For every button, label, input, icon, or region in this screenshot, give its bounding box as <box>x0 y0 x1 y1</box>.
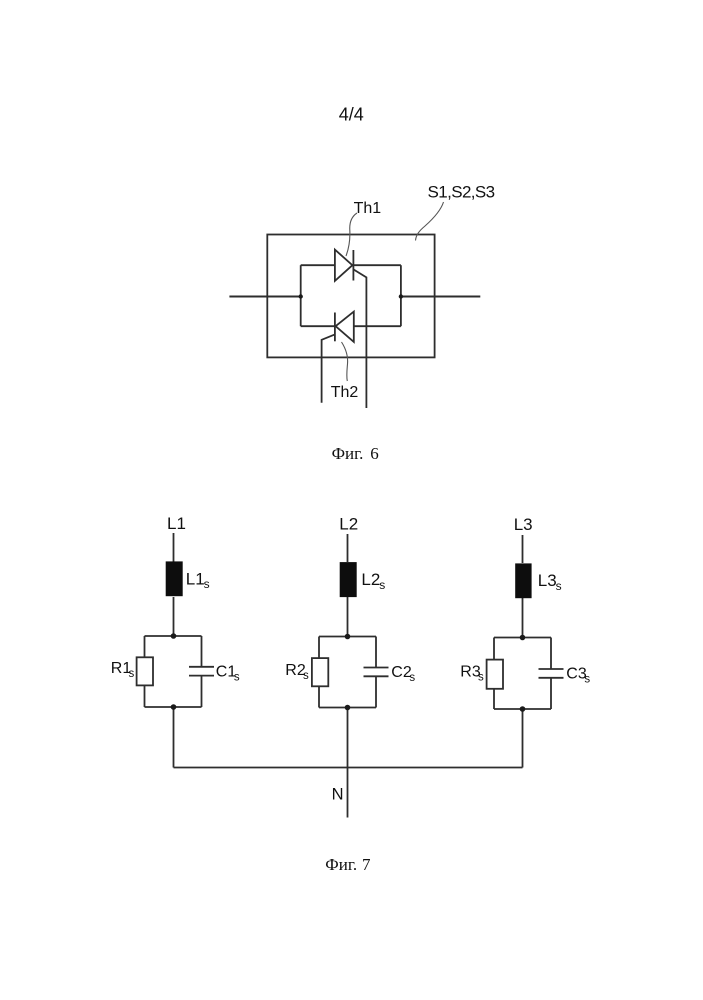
svg-text:L3: L3 <box>538 571 557 590</box>
svg-text:Фиг.7: Фиг.7 <box>325 855 371 874</box>
svg-text:4/4: 4/4 <box>339 104 364 124</box>
svg-text:L2: L2 <box>361 570 380 589</box>
svg-text:Th2: Th2 <box>331 384 359 401</box>
svg-text:L1: L1 <box>167 514 186 533</box>
svg-text:S1,S2,S3: S1,S2,S3 <box>428 183 495 202</box>
svg-text:Th1: Th1 <box>354 200 382 217</box>
svg-text:s: s <box>409 672 415 684</box>
svg-text:Фиг.6: Фиг.6 <box>332 444 379 463</box>
svg-text:s: s <box>303 670 309 682</box>
svg-text:N: N <box>332 786 344 804</box>
svg-text:s: s <box>129 668 135 680</box>
svg-text:L2: L2 <box>339 514 358 533</box>
svg-text:s: s <box>584 674 590 686</box>
svg-text:s: s <box>379 578 385 592</box>
svg-text:s: s <box>204 577 210 591</box>
svg-text:L3: L3 <box>514 515 533 534</box>
svg-text:s: s <box>556 579 562 593</box>
svg-text:s: s <box>234 672 240 684</box>
svg-text:L1: L1 <box>186 569 205 588</box>
svg-text:s: s <box>478 671 484 683</box>
